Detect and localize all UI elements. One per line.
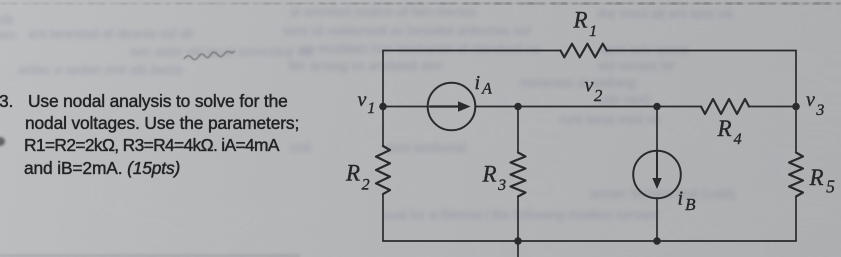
left-edge dark mark (0, 137, 5, 146)
svg-text:v3: v3 (806, 89, 824, 119)
wire iA to node (476, 106, 518, 108)
svg-text:v1: v1 (358, 89, 376, 117)
resistor R2 (376, 146, 390, 194)
wire top: left corner to R1 (383, 50, 561, 52)
wire v3 to R5 (795, 107, 797, 153)
wire R3 to bottom (517, 197, 519, 242)
wire right edge upper (795, 51, 797, 107)
wire R2 to bottom (382, 194, 384, 241)
wire bottom (383, 240, 796, 242)
node v3 (792, 103, 800, 111)
scan top-edge artifact (0, 2, 841, 5)
resistor R5 (789, 153, 803, 197)
node v1 (379, 103, 387, 111)
svg-text:R5: R5 (809, 165, 836, 197)
problem statement text (0, 90, 330, 179)
faint bleed-through text from reverse side (28, 26, 194, 41)
svg-text:R4: R4 (717, 116, 742, 148)
current source iB (633, 151, 681, 199)
resistor R4 (701, 99, 749, 114)
node at R3 top (514, 103, 522, 111)
wire R3 branch upper (517, 107, 519, 153)
svg-text:R3: R3 (482, 162, 507, 195)
current source iA (428, 83, 476, 131)
bottom-left shadow edge (0, 253, 300, 257)
wire v1 to iA (383, 106, 428, 108)
wire R5 to bottom (795, 197, 797, 242)
wire node to node (518, 106, 657, 108)
wire R4 to v3 (749, 106, 796, 108)
wire left edge upper (382, 51, 384, 107)
wire left edge to R2 (382, 107, 384, 147)
resistor R3 (511, 153, 526, 197)
wire node to R4 (657, 106, 701, 108)
svg-text:R1: R1 (573, 7, 598, 40)
svg-text:iB: iB (678, 188, 697, 215)
wire iB branch upper (656, 107, 658, 151)
svg-text:v2: v2 (585, 74, 603, 105)
node at R3 bottom (514, 237, 522, 245)
resistor R1 (561, 44, 607, 58)
svg-text:R2: R2 (345, 160, 370, 193)
wire iB to bottom (656, 198, 658, 241)
wire stub below bottom (517, 241, 519, 257)
svg-text:iA: iA (475, 72, 493, 98)
node at iB top (653, 103, 661, 111)
node at iB bottom (653, 237, 661, 245)
wire top: R1 to right corner (607, 50, 796, 52)
